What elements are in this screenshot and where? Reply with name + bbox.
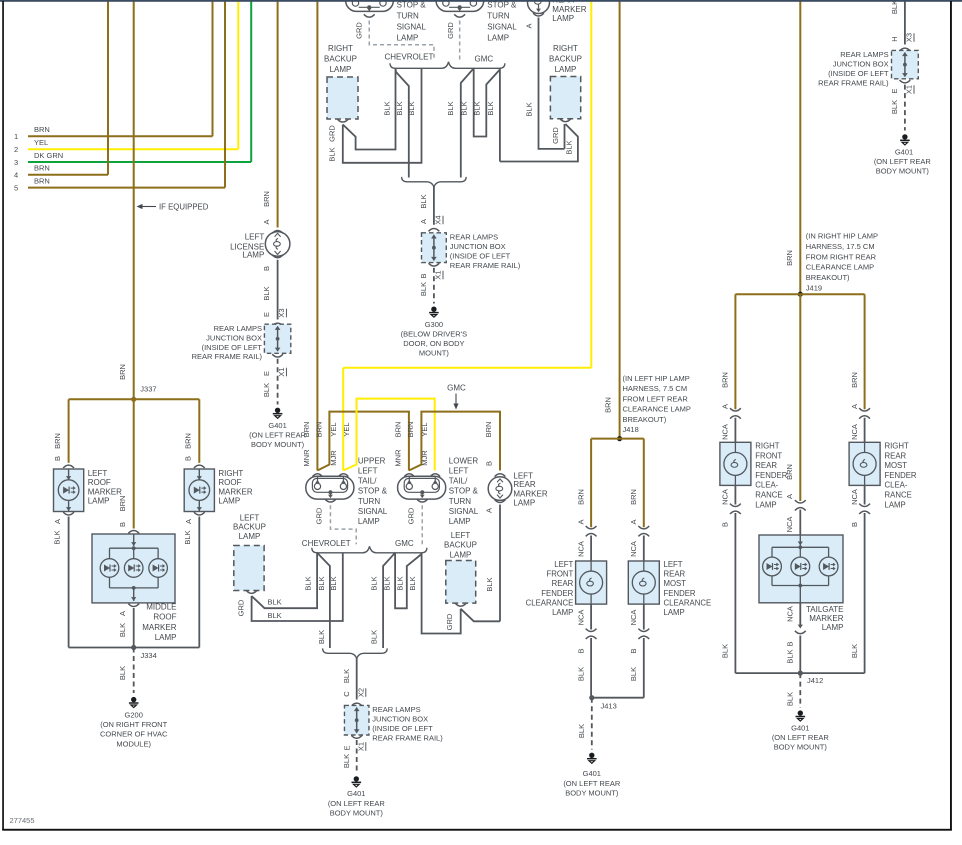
lamp left backup lamp (GMC): [444, 531, 477, 606]
svg-text:BRN: BRN: [315, 422, 324, 438]
wire GRD chevy backup diag to brace wire 1: [328, 68, 396, 149]
svg-text:(ON LEFT REAR: (ON LEFT REAR: [772, 733, 830, 742]
wire feed 2 YEL: [14, 0, 238, 154]
svg-text:BRN: BRN: [603, 397, 612, 413]
svg-text:GRD: GRD: [551, 127, 560, 144]
wire BLK license lamp to junction box: [262, 260, 287, 320]
lamp left roof marker LEFT ROOF MARKER LAMP: [54, 465, 123, 515]
svg-text:GMC: GMC: [447, 384, 466, 393]
svg-text:A: A: [524, 23, 533, 28]
svg-text:NCA: NCA: [576, 610, 585, 626]
labels tail lamp 2 pins MNR MJR: [394, 422, 430, 467]
wire BRN bridge tail lamp1 MNR to lamp2 MNR: [317, 412, 409, 471]
svg-text:TURN: TURN: [358, 497, 380, 506]
wire chevy ground trunk diagonal to lower brace: [395, 68, 409, 177]
svg-text:BODY MOUNT): BODY MOUNT): [330, 808, 384, 817]
svg-text:MARKER: MARKER: [513, 490, 547, 499]
svg-text:A: A: [629, 519, 638, 524]
svg-text:G401: G401: [347, 789, 365, 798]
wire gmc ground trunk diagonal to lower brace: [446, 68, 474, 177]
svg-text:GRD: GRD: [446, 22, 455, 39]
lamp lower left tail stop turn LOWER LEFT TAIL/STOP & TURN SIGNAL LAMP: [398, 456, 479, 526]
annotation IF EQUIPPED: [137, 203, 209, 212]
svg-text:GMC: GMC: [395, 539, 414, 548]
svg-text:C: C: [342, 691, 351, 697]
svg-text:RIGHT: RIGHT: [218, 469, 243, 478]
svg-text:BRN: BRN: [34, 164, 50, 173]
svg-text:B: B: [850, 522, 859, 527]
svg-text:MOUNT): MOUNT): [419, 349, 449, 358]
svg-text:CLEARANCE LAMP: CLEARANCE LAMP: [623, 405, 691, 414]
connector X2 arc: [351, 703, 362, 706]
svg-text:(BELOW DRIVER'S: (BELOW DRIVER'S: [401, 329, 467, 338]
svg-text:BLK: BLK: [118, 666, 127, 680]
svg-text:(ON LEFT REAR: (ON LEFT REAR: [249, 431, 307, 440]
svg-text:LAMP: LAMP: [822, 623, 844, 632]
svg-text:NCA: NCA: [629, 541, 638, 557]
wire BLK brace to connector X4: [419, 186, 443, 225]
svg-text:TURN: TURN: [397, 12, 419, 21]
svg-text:CLEARANCE LAMP: CLEARANCE LAMP: [806, 263, 874, 272]
svg-text:A: A: [785, 494, 794, 499]
svg-text:BLK: BLK: [268, 611, 282, 620]
svg-text:ROOF: ROOF: [218, 478, 241, 487]
svg-text:(ON LEFT REAR: (ON LEFT REAR: [563, 779, 621, 788]
svg-text:TURN: TURN: [487, 12, 509, 21]
lamp right backup lamp (Chevrolet): [324, 44, 358, 122]
svg-text:BRN: BRN: [302, 422, 311, 438]
node J334: [69, 645, 200, 660]
wire BLK dashed below left junction box: [262, 354, 287, 404]
svg-text:BRN: BRN: [118, 496, 127, 512]
wire chevy ground trunk diagonal to lower brace (bottom): [317, 553, 330, 648]
svg-text:FROM RIGHT REAR: FROM RIGHT REAR: [806, 252, 877, 261]
svg-text:BRN: BRN: [629, 489, 638, 505]
svg-text:A: A: [53, 519, 62, 524]
svg-text:RIGHT: RIGHT: [885, 442, 909, 451]
node J419: [798, 292, 803, 297]
svg-text:X1: X1: [905, 85, 914, 94]
svg-text:(IN RIGHT HIP LAMP: (IN RIGHT HIP LAMP: [806, 232, 878, 241]
svg-text:CLEARANCE: CLEARANCE: [526, 598, 574, 607]
node J418: [617, 436, 622, 441]
wire BLK chevy backup to brace wire 3: [327, 68, 421, 163]
svg-text:BLK: BLK: [721, 644, 730, 658]
lamp upper left tail stop turn UPPER LEFT TAIL/STOP & TURN SIGNAL LAMP: [306, 456, 388, 526]
svg-text:BLK: BLK: [370, 576, 379, 590]
svg-text:CHEVROLET: CHEVROLET: [302, 539, 351, 548]
lamp right front rear fender clearance RIGHT FRONT REAR FENDER CLEARANCE LAMP: [720, 442, 788, 510]
svg-text:J412: J412: [807, 676, 823, 685]
svg-text:(ON LEFT REAR: (ON LEFT REAR: [874, 157, 932, 166]
svg-text:LEFT: LEFT: [664, 560, 683, 569]
svg-text:BLK: BLK: [629, 667, 638, 681]
svg-text:ROOF: ROOF: [153, 613, 176, 622]
connector X4 arc: [429, 228, 440, 231]
lamp right rear marker lamp REAR MARKER LAMP: [528, 0, 587, 23]
lamp right backup lamp (GMC): [549, 44, 582, 122]
wire BRN trunk to J337: [118, 0, 134, 399]
doc number 277455: [10, 816, 35, 825]
svg-text:SIGNAL: SIGNAL: [449, 507, 479, 516]
ground G200: [100, 697, 168, 748]
svg-text:MOST: MOST: [664, 579, 687, 588]
svg-text:RANCE: RANCE: [755, 491, 782, 500]
svg-text:A: A: [184, 519, 193, 524]
svg-text:BLK: BLK: [486, 101, 495, 115]
svg-text:LEFT: LEFT: [358, 467, 378, 476]
svg-text:FRONT: FRONT: [546, 570, 573, 579]
svg-text:JUNCTION BOX: JUNCTION BOX: [206, 334, 262, 343]
svg-text:BRN: BRN: [184, 433, 193, 449]
svg-text:REAR FRAME RAIL): REAR FRAME RAIL): [818, 79, 889, 88]
lamp right stop and turn signal lamp 2 (GMC): [436, 0, 517, 42]
svg-text:BLK: BLK: [446, 101, 455, 115]
svg-text:3: 3: [14, 158, 18, 167]
svg-text:4: 4: [14, 171, 18, 180]
svg-text:LAMP: LAMP: [513, 499, 535, 508]
svg-text:BLK: BLK: [786, 692, 795, 706]
svg-text:REAR LAMPS: REAR LAMPS: [214, 324, 262, 333]
node J337: [131, 385, 156, 402]
svg-text:MOST: MOST: [885, 461, 908, 470]
connector pair left rear most clearance: [629, 526, 649, 561]
svg-text:FRONT: FRONT: [755, 451, 782, 460]
svg-text:BACKUP: BACKUP: [233, 523, 266, 532]
svg-text:CLEA-: CLEA-: [755, 481, 778, 490]
svg-text:REAR: REAR: [552, 579, 574, 588]
wire BLK gmc backup diag to marker junction: [461, 609, 500, 622]
wire feed 5 BRN: [14, 0, 225, 192]
connector pair left front clearance: [576, 526, 596, 561]
svg-text:B: B: [629, 648, 638, 653]
svg-text:GRD: GRD: [354, 22, 363, 39]
svg-text:JUNCTION BOX: JUNCTION BOX: [372, 715, 428, 724]
svg-text:BLK: BLK: [52, 530, 61, 544]
wire BRN J419 to tailgate lamp: [785, 294, 801, 501]
wire GRD dashed stop lamp 2 to GMC option: [446, 21, 460, 61]
connector pair right front clearance: [721, 408, 741, 442]
label GMC bottom: [395, 539, 414, 548]
svg-text:BACKUP: BACKUP: [444, 541, 477, 550]
lamp left backup lamp (Chevrolet): [233, 514, 266, 594]
svg-text:TAIL/: TAIL/: [449, 477, 468, 486]
svg-text:HARNESS, 7.5 CM: HARNESS, 7.5 CM: [623, 384, 688, 393]
svg-text:NCA: NCA: [721, 424, 730, 440]
svg-text:YEL: YEL: [34, 138, 48, 147]
ground G401 (J413): [563, 753, 621, 798]
svg-text:LAMP: LAMP: [552, 608, 573, 617]
wire feed 3 DK GRN: [14, 0, 251, 167]
wire left front clearance B BLK to J413: [576, 604, 596, 698]
svg-text:LEFT: LEFT: [240, 514, 260, 523]
wire BLK dashed below bottom-mid junction box: [342, 735, 366, 773]
wire BLK trunk to connector X3 (right): [890, 0, 914, 45]
wire GRD dashed tail lamp1 to Chevrolet option: [315, 505, 357, 544]
svg-text:SIGNAL: SIGNAL: [397, 23, 427, 32]
brace options top (Chevrolet/GMC): [390, 62, 505, 69]
svg-text:MIDDLE: MIDDLE: [146, 603, 176, 612]
lamp left front rear fender clearance LEFT FRONT REAR FENDER CLEARANCE LAMP: [526, 560, 607, 617]
lamp right stop and turn signal lamp 1 (Chevrolet): [346, 0, 427, 42]
svg-text:BLK: BLK: [408, 576, 417, 590]
wire BLK gmc backup diag to brace wire 6: [500, 124, 578, 162]
svg-text:MARKER: MARKER: [142, 623, 176, 632]
svg-text:FENDER: FENDER: [541, 589, 573, 598]
svg-text:NCA: NCA: [721, 489, 730, 505]
svg-text:BLK: BLK: [786, 649, 795, 663]
svg-text:LEFT: LEFT: [513, 471, 533, 480]
svg-text:BLK: BLK: [395, 101, 404, 115]
wire BRN long to tail lamp 1 MNR: [316, 0, 318, 471]
svg-text:BODY MOUNT): BODY MOUNT): [565, 788, 619, 797]
wire GRD gmc backup vertical to marker junction: [551, 124, 565, 149]
svg-text:BODY MOUNT): BODY MOUNT): [876, 167, 930, 176]
svg-text:A: A: [262, 219, 271, 224]
wire GRD dashed stop lamp 1 to Chevrolet option: [354, 21, 434, 59]
ground G401 bottom-mid: [328, 776, 386, 817]
svg-text:(INSIDE OF LEFT: (INSIDE OF LEFT: [372, 724, 433, 733]
svg-text:TAIL/: TAIL/: [358, 477, 377, 486]
svg-text:LAMP: LAMP: [552, 14, 574, 23]
svg-text:BLK: BLK: [342, 754, 351, 768]
lamp left rear marker LEFT REAR MARKER LAMP: [484, 422, 548, 508]
svg-text:BODY MOUNT): BODY MOUNT): [251, 440, 305, 449]
svg-text:BLK: BLK: [262, 383, 271, 397]
svg-text:E: E: [262, 371, 271, 376]
svg-text:HARNESS, 17.5 CM: HARNESS, 17.5 CM: [806, 242, 875, 251]
connector X3 arc: [272, 323, 283, 326]
svg-text:GRD: GRD: [328, 125, 337, 142]
svg-text:GMC: GMC: [475, 55, 494, 64]
svg-text:G401: G401: [268, 421, 286, 430]
svg-text:A: A: [419, 219, 428, 224]
svg-text:BLK: BLK: [419, 194, 428, 208]
wire right rear most clearance B BLK to J412 rail: [850, 485, 870, 673]
wire YEL long rail to tail lamp 1 MJR: [343, 0, 591, 471]
wire feed 1 BRN: [14, 0, 213, 141]
svg-text:BRN: BRN: [785, 250, 794, 266]
svg-text:BACKUP: BACKUP: [324, 55, 357, 64]
svg-text:BLK: BLK: [268, 598, 282, 607]
svg-text:MARKER: MARKER: [552, 5, 586, 14]
svg-text:LOWER: LOWER: [449, 456, 479, 465]
svg-text:B: B: [786, 641, 795, 646]
svg-text:BLK: BLK: [577, 724, 586, 738]
svg-text:5: 5: [14, 183, 18, 192]
svg-text:BREAKOUT): BREAKOUT): [806, 273, 850, 282]
wire BLK dashed below right junction box: [890, 80, 914, 131]
svg-text:BRN: BRN: [406, 422, 415, 438]
label GMC arrow mid: [447, 384, 466, 410]
svg-text:BRN: BRN: [262, 191, 271, 207]
lamp right rear most fender clearance RIGHT REAR MOST FENDER CLEARANCE LAMP: [849, 408, 917, 509]
ground G401 left: [249, 408, 307, 450]
svg-text:E: E: [343, 745, 352, 750]
svg-text:BLK: BLK: [342, 669, 351, 683]
svg-text:NCA: NCA: [850, 424, 859, 440]
svg-text:DOOR, ON BODY: DOOR, ON BODY: [403, 339, 464, 348]
svg-text:REAR: REAR: [513, 480, 535, 489]
svg-text:NCA: NCA: [785, 517, 794, 533]
svg-text:NCA: NCA: [850, 489, 859, 505]
brace options bottom (Chevrolet/GMC): [312, 546, 427, 553]
svg-text:LAMP: LAMP: [155, 633, 177, 642]
node J412: [735, 671, 864, 686]
svg-text:A: A: [850, 404, 859, 409]
svg-text:MARKER: MARKER: [88, 487, 122, 496]
svg-text:STOP &: STOP &: [358, 487, 388, 496]
svg-text:A: A: [721, 404, 730, 409]
svg-text:SIGNAL: SIGNAL: [487, 23, 517, 32]
svg-text:REAR LAMPS: REAR LAMPS: [450, 233, 498, 242]
svg-text:NCA: NCA: [786, 606, 795, 622]
svg-text:RANCE: RANCE: [885, 491, 912, 500]
svg-text:J337: J337: [140, 385, 156, 394]
svg-text:BLK: BLK: [473, 101, 482, 115]
svg-text:G401: G401: [583, 769, 601, 778]
svg-text:NCA: NCA: [576, 541, 585, 557]
wire BLK dashed to G401 (J413): [577, 698, 592, 750]
svg-text:LAMP: LAMP: [218, 497, 240, 506]
svg-text:G200: G200: [125, 711, 143, 720]
svg-text:NCA: NCA: [629, 610, 638, 626]
svg-text:BLK: BLK: [327, 147, 336, 161]
note J419 harness text: [806, 232, 878, 293]
svg-text:BRN: BRN: [34, 125, 50, 134]
svg-text:GRD: GRD: [315, 507, 324, 524]
svg-text:E: E: [890, 88, 899, 93]
svg-text:IF EQUIPPED: IF EQUIPPED: [159, 203, 209, 212]
svg-text:LAMP: LAMP: [487, 34, 509, 43]
svg-text:BRN: BRN: [785, 464, 794, 480]
svg-text:UPPER: UPPER: [358, 456, 386, 465]
wire BLK dashed to G200: [118, 648, 134, 694]
svg-text:LEFT: LEFT: [554, 560, 573, 569]
wire BRN bridge tail lamp2 MNR to marker lamp B: [409, 412, 500, 471]
svg-text:ROOF: ROOF: [88, 478, 111, 487]
svg-text:X4: X4: [434, 215, 443, 224]
svg-text:GRD: GRD: [445, 613, 454, 630]
svg-text:X1: X1: [434, 270, 443, 279]
svg-text:G401: G401: [895, 148, 913, 157]
wire marker lamp A BLK down to backup junction: [485, 505, 501, 622]
wire feed 4 BRN: [14, 0, 108, 180]
ground G401 (right): [874, 134, 932, 176]
svg-text:BRN: BRN: [394, 422, 403, 438]
wire BLK dashed below top-mid junction box: [419, 263, 443, 303]
svg-text:REAR LAMPS: REAR LAMPS: [372, 705, 420, 714]
svg-text:X2: X2: [356, 688, 365, 697]
junction box rear lamps (left) REAR LAMPS JUNCTION BOX: [192, 324, 291, 361]
svg-text:BRN: BRN: [721, 372, 730, 388]
wire right roof marker BLK to J334: [183, 517, 199, 648]
svg-text:LAMP: LAMP: [88, 497, 110, 506]
svg-text:LAMP: LAMP: [239, 532, 261, 541]
lamp right roof marker RIGHT ROOF MARKER LAMP: [184, 465, 253, 515]
svg-text:BLK: BLK: [485, 577, 494, 591]
svg-text:G401: G401: [791, 723, 809, 732]
label CHEVROLET top: [385, 53, 434, 62]
wire J419 rail to right clearance lamps: [721, 294, 865, 409]
wire BLK brace to connector X2: [342, 658, 366, 700]
svg-text:B: B: [53, 456, 62, 461]
svg-text:A: A: [485, 508, 494, 513]
ground G300: [401, 307, 467, 358]
svg-text:BRN: BRN: [118, 364, 127, 380]
svg-text:BLK: BLK: [890, 0, 899, 14]
svg-text:BLK: BLK: [304, 576, 313, 590]
svg-text:E: E: [262, 312, 271, 317]
svg-text:B: B: [576, 648, 585, 653]
svg-text:BLK: BLK: [382, 101, 391, 115]
svg-text:MJR: MJR: [420, 450, 429, 466]
svg-text:BLK: BLK: [460, 101, 469, 115]
svg-text:YEL: YEL: [420, 422, 429, 436]
svg-text:J418: J418: [623, 425, 639, 434]
wire J337 to middle roof marker lamp: [118, 399, 134, 528]
svg-text:MARKER: MARKER: [218, 487, 252, 496]
svg-text:FENDER: FENDER: [664, 589, 696, 598]
wire marker lamp A BLK to ground junction: [524, 18, 564, 149]
wire gmc brace point to backup junction: [486, 68, 500, 161]
labels tail lamp 1 pins MNR MJR: [302, 422, 351, 467]
connector tailgate A NCA: [785, 500, 806, 535]
svg-text:B: B: [721, 522, 730, 527]
wire BRN to left license lamp pin A: [262, 0, 277, 228]
label CHEVROLET bottom: [302, 539, 351, 548]
connector X3 arc (right): [900, 48, 911, 51]
svg-text:BLK: BLK: [183, 530, 192, 544]
svg-text:RIGHT: RIGHT: [553, 44, 578, 53]
svg-text:LEFT: LEFT: [88, 469, 108, 478]
svg-text:(IN LEFT HIP LAMP: (IN LEFT HIP LAMP: [623, 374, 690, 383]
svg-text:REAR LAMPS: REAR LAMPS: [840, 50, 888, 59]
svg-text:B: B: [485, 461, 494, 466]
lamp left license LEFT LICENSE LAMP: [230, 231, 290, 260]
svg-text:J413: J413: [601, 702, 617, 711]
svg-text:GRD: GRD: [236, 599, 245, 616]
wire J418 rail to clearance lamps: [576, 439, 643, 528]
svg-text:(ON RIGHT FRONT: (ON RIGHT FRONT: [100, 720, 167, 729]
wire gmc U loop: [460, 68, 500, 136]
svg-text:STOP &: STOP &: [397, 1, 427, 10]
junction box rear lamps (bottom-mid) REAR LAMPS JUNCTION BOX: [344, 705, 443, 743]
note J418 harness text: [623, 374, 691, 434]
svg-text:FROM LEFT REAR: FROM LEFT REAR: [623, 394, 689, 403]
svg-text:LEFT: LEFT: [245, 233, 265, 242]
svg-text:J334: J334: [141, 651, 157, 660]
svg-text:LAMP: LAMP: [755, 500, 776, 509]
svg-text:FENDER: FENDER: [755, 471, 787, 480]
svg-text:277455: 277455: [10, 816, 35, 825]
svg-text:BLK: BLK: [395, 576, 404, 590]
svg-text:B: B: [184, 456, 193, 461]
svg-text:BREAKOUT): BREAKOUT): [623, 415, 667, 424]
svg-text:B: B: [419, 273, 428, 278]
svg-text:STOP &: STOP &: [487, 1, 517, 10]
svg-text:BLK: BLK: [317, 576, 326, 590]
svg-text:REAR FRAME RAIL): REAR FRAME RAIL): [450, 261, 521, 270]
svg-text:MARKER: MARKER: [809, 614, 843, 623]
wire BRN trunk to J418: [603, 0, 619, 439]
wire middle roof marker BLK to J334: [118, 608, 134, 648]
wire gmc U loop (bottom): [383, 553, 422, 609]
junction box rear lamps (top-mid) REAR LAMPS JUNCTION BOX: [422, 233, 521, 271]
svg-text:LEFT: LEFT: [451, 531, 471, 540]
node J413: [589, 695, 644, 710]
svg-text:LAMP: LAMP: [358, 517, 380, 526]
